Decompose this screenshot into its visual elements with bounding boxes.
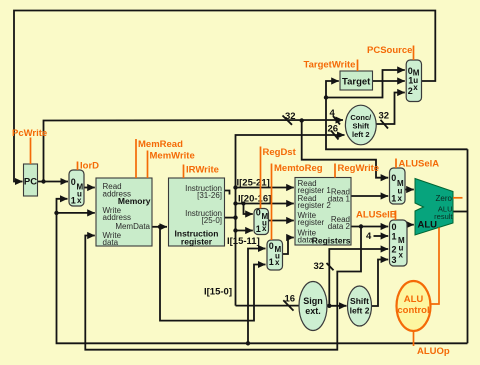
svg-text:PcWrite: PcWrite — [12, 128, 47, 139]
control ALUSelB — [356, 210, 397, 221]
mux RegDst — [254, 208, 269, 235]
svg-text:data 1: data 1 — [328, 195, 351, 204]
node sign ext output junction — [327, 304, 331, 308]
wire Read data 1 to ALUSelA mux input 1 — [351, 195, 388, 197]
control TargetWrite — [304, 60, 358, 72]
Zero output stub — [453, 197, 463, 199]
wire B register to Memory Write data — [85, 227, 361, 350]
svg-text:Shift: Shift — [350, 296, 369, 306]
mux ALUSelA — [390, 168, 406, 204]
svg-text:ALUOp: ALUOp — [417, 346, 450, 357]
svg-text:x: x — [275, 258, 280, 267]
wire ALUSelB mux output to ALU input B — [407, 224, 414, 226]
wire Target output to PCSource mux input 1 — [373, 80, 405, 82]
svg-text:ALUSelA: ALUSelA — [399, 159, 440, 170]
svg-text:data: data — [103, 238, 119, 247]
register file Registers — [295, 178, 351, 246]
control PCSource — [367, 45, 414, 60]
slash on PC bus — [283, 116, 293, 125]
wire Read data 2 to ALUSelB mux input 0 — [351, 226, 388, 228]
svg-text:0: 0 — [392, 222, 397, 232]
svg-text:MemData: MemData — [115, 222, 150, 231]
svg-text:left 2: left 2 — [350, 306, 370, 316]
svg-text:RegDst: RegDst — [263, 147, 297, 158]
svg-text:32: 32 — [379, 111, 390, 122]
wire ALU result branch to PCSource mux input 0 — [326, 70, 405, 98]
svg-text:I[20-16]: I[20-16] — [238, 194, 271, 205]
wire MemData down and right to MemtoReg mux input 1 — [160, 227, 266, 321]
control IorD — [78, 161, 100, 172]
mux MemtoReg — [267, 240, 283, 270]
svg-text:I[15-0]: I[15-0] — [204, 287, 232, 298]
node PC output junction — [41, 179, 45, 183]
svg-text:32: 32 — [314, 261, 325, 272]
svg-text:ALU: ALU — [418, 220, 438, 231]
control MemtoReg — [272, 163, 323, 240]
svg-text:3: 3 — [392, 255, 397, 265]
svg-text:1: 1 — [256, 224, 261, 234]
svg-text:PCSource: PCSource — [367, 45, 412, 56]
svg-text:register: register — [298, 218, 325, 227]
function unit Conc/Shift left 2 — [345, 105, 376, 145]
slash on 26 wire — [331, 131, 339, 140]
mux IorD — [69, 170, 84, 206]
wire ALUOp label line — [413, 331, 415, 346]
wire instruction bus I[25-0] from IR up to Conc 26-bit input — [236, 135, 345, 306]
memory unit — [96, 178, 152, 247]
svg-text:Memory: Memory — [118, 196, 151, 206]
wire ALUSelA mux output to ALU input A — [405, 189, 414, 191]
svg-text:1: 1 — [269, 257, 274, 267]
slash on Conc output — [381, 120, 389, 129]
node bus junction — [233, 215, 237, 219]
node bottom line junction — [246, 341, 250, 345]
node I[15-11] tap — [233, 228, 237, 232]
slash on 16 wire — [283, 300, 293, 310]
svg-text:Zero: Zero — [436, 194, 453, 203]
svg-text:RegWrite: RegWrite — [338, 163, 380, 174]
svg-text:TargetWrite: TargetWrite — [304, 60, 356, 71]
wire Sign ext output to Shift left 2 — [327, 305, 347, 307]
svg-text:address: address — [103, 213, 131, 222]
wire Conc output to PCSource mux input 2 — [376, 93, 405, 125]
svg-text:Sign: Sign — [303, 296, 323, 306]
wire ALU result right and vertical feedback — [453, 211, 468, 213]
svg-text:I[25-21]: I[25-21] — [237, 178, 270, 189]
svg-text:2: 2 — [392, 245, 397, 255]
svg-text:MemRead: MemRead — [138, 139, 183, 150]
svg-text:0: 0 — [256, 208, 261, 218]
slash on Conc 4 input — [333, 116, 340, 125]
node write address junction — [54, 211, 58, 215]
wire opcode stub Instruction[31-26] — [225, 191, 230, 195]
node I[20-16] tap — [233, 201, 237, 205]
svg-text:ALU: ALU — [404, 294, 424, 305]
control RegWrite — [335, 163, 379, 178]
control MemWrite — [148, 151, 195, 179]
node branch junction — [242, 202, 246, 206]
wire ALUOp from ALU control to ALU — [431, 228, 439, 305]
wire PC bus branch down to ALUSelA mux input 0 — [302, 121, 389, 178]
function unit Shift left 2 — [348, 286, 372, 326]
wire PC output to IorD mux input 0 — [38, 181, 69, 183]
svg-text:x: x — [77, 196, 82, 205]
node MemData junction — [158, 225, 162, 229]
svg-text:result: result — [434, 212, 453, 221]
svg-text:x: x — [398, 194, 403, 203]
mux PCSource — [406, 60, 421, 102]
svg-text:Registers: Registers — [312, 236, 351, 246]
svg-text:2: 2 — [408, 86, 413, 96]
wire I[20-16] branch to RegDst mux input 0 — [244, 204, 253, 215]
control RegDst — [261, 147, 297, 209]
node PC bus junction — [300, 118, 304, 122]
svg-text:x: x — [262, 224, 267, 233]
wire sign ext branch up to ALUSelB mux input 2 — [329, 249, 388, 306]
wire I[15-11] to RegDst mux input 1 — [236, 230, 253, 232]
wire ALU result bottom line to MemtoReg mux input 0 — [248, 249, 266, 344]
register PC — [24, 164, 38, 196]
wire RegDst mux output to Registers Write register — [269, 220, 294, 222]
svg-text:[25-0]: [25-0] — [202, 216, 222, 225]
svg-text:MemWrite: MemWrite — [150, 151, 195, 162]
wire PCSource mux output feedback loop to PC input — [14, 11, 435, 182]
svg-text:MemtoReg: MemtoReg — [274, 163, 323, 174]
svg-text:register: register — [181, 237, 213, 247]
node I[25-21] tap — [233, 185, 237, 189]
node Read data 2 junction — [359, 224, 363, 228]
svg-text:0: 0 — [391, 173, 396, 183]
svg-text:4: 4 — [366, 231, 372, 242]
mux ALUSelB — [390, 220, 408, 266]
wire MemData to Instruction register — [152, 226, 167, 228]
svg-text:IRWrite: IRWrite — [186, 165, 219, 176]
wire Shift left 2 output to ALUSelB mux input 3 — [371, 260, 388, 307]
wire Instruction[25-0] output stub from IR to bus — [225, 217, 236, 219]
wire ALU result bottom feedback line — [57, 199, 468, 343]
svg-text:IorD: IorD — [80, 161, 99, 172]
wire PC 32-bit bus up and right to Conc input 4 — [44, 120, 344, 182]
svg-text:I[15-11]: I[15-11] — [227, 236, 260, 247]
control ALUSelA — [396, 159, 439, 170]
wire ALU result top to Target input — [326, 81, 468, 149]
svg-text:x: x — [413, 83, 418, 92]
svg-text:0: 0 — [71, 177, 76, 187]
wire ALU result vertical — [467, 149, 469, 343]
control PcWrite — [12, 128, 47, 164]
wire constant 4 to ALUSelB mux input 1 — [374, 235, 389, 237]
wire MemtoReg mux output to Registers Write data — [283, 238, 294, 255]
svg-text:register 2: register 2 — [298, 201, 332, 210]
svg-text:[31-26]: [31-26] — [197, 191, 222, 200]
svg-text:x: x — [399, 251, 404, 260]
wire IorD mux output to Memory Read address — [84, 187, 95, 189]
control MemRead — [136, 139, 183, 178]
wire I[15-0] to Sign ext — [236, 305, 300, 307]
svg-text:ALUSelB: ALUSelB — [356, 210, 397, 221]
wire I[20-16] to Read register 2 — [236, 203, 294, 205]
function unit Sign ext — [299, 282, 327, 331]
control unit ALU control — [397, 281, 431, 331]
svg-text:Target: Target — [342, 77, 371, 88]
wire I[25-21] to Read register 1 — [236, 187, 294, 189]
instruction register U-IR — [169, 178, 225, 247]
svg-text:1: 1 — [391, 194, 396, 204]
control IRWrite — [184, 165, 219, 179]
node ALU result branch junction — [324, 95, 328, 99]
svg-text:data 2: data 2 — [328, 222, 351, 231]
svg-text:control: control — [397, 305, 429, 316]
svg-text:ext.: ext. — [305, 306, 321, 316]
register Target — [340, 71, 373, 90]
slash on sign ext branch — [327, 263, 334, 270]
svg-text:PC: PC — [24, 177, 37, 188]
svg-text:1: 1 — [71, 196, 76, 206]
wire ALU result to Memory Write address — [57, 212, 95, 214]
svg-text:1: 1 — [392, 232, 397, 242]
ALU U1 — [415, 179, 453, 236]
svg-text:left 2: left 2 — [352, 130, 370, 139]
svg-text:0: 0 — [269, 241, 274, 251]
